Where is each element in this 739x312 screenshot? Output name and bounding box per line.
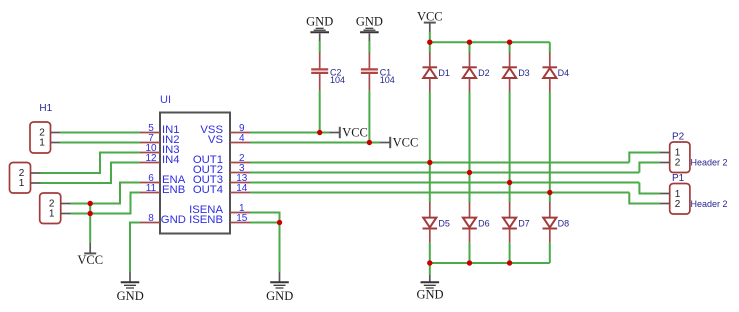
junction OUT2 and D2 column — [467, 170, 472, 175]
pin GND (8) of U1 — [140, 213, 186, 226]
junction top rail at D3 column — [507, 40, 512, 45]
wire ISEN node down to ground — [279, 223, 281, 273]
pin IN4 (12) of U1 — [140, 153, 180, 166]
wire OUT1 row — [250, 162, 629, 164]
connector P1 body — [670, 184, 690, 215]
diode D5 — [423, 202, 438, 243]
wire D1 column from top rail — [429, 42, 431, 53]
junction OUT4 and D4 column — [547, 190, 552, 195]
svg-text:D3: D3 — [518, 68, 530, 78]
wire OUT4 row — [250, 192, 629, 194]
junction J3 pin 2 and VCC drop — [88, 201, 93, 206]
ground symbol below bottom rail — [416, 263, 443, 302]
svg-text:H1: H1 — [39, 103, 52, 114]
wire D4 column top drop — [549, 42, 551, 53]
svg-text:2: 2 — [675, 158, 681, 169]
wire D1 column to OUT1 row and down — [429, 92, 431, 202]
svg-text:GND: GND — [416, 288, 443, 302]
wire GND symbol to C2 top — [319, 41, 321, 53]
svg-text:D4: D4 — [558, 68, 570, 78]
wire ISENA to ground drop — [250, 213, 280, 223]
pin VS (4) of U1 — [208, 133, 250, 146]
junction bottom rail at D7 column — [507, 260, 512, 265]
svg-text:1: 1 — [49, 209, 55, 220]
pin VSS (9) of U1 — [200, 123, 250, 136]
svg-text:104: 104 — [380, 75, 395, 85]
wire VSS net to VCC label — [250, 132, 330, 134]
connector P2 body — [670, 142, 690, 173]
wire VCC drop from J3 pins — [89, 204, 91, 244]
junction OUT3 and D3 column — [507, 180, 512, 185]
wire J3 pin 1 to ENB — [71, 193, 141, 214]
svg-text:4: 4 — [239, 133, 245, 144]
svg-text:IN4: IN4 — [162, 154, 180, 166]
ground symbol above C1 — [356, 15, 383, 41]
connector J3 body (left lower header) — [40, 193, 61, 224]
svg-text:VCC: VCC — [393, 135, 419, 149]
wire top rail VCC — [430, 41, 550, 43]
svg-text:GND: GND — [306, 15, 333, 29]
junction bottom rail at D5 column — [427, 260, 432, 265]
svg-text:8: 8 — [148, 213, 154, 224]
connector J2 body (left middle header) — [10, 163, 31, 194]
wire D3 column to OUT3 row and down — [509, 92, 511, 202]
diode D1 — [423, 53, 438, 92]
connector H1 body — [30, 122, 51, 153]
P1 pin 1 stub — [660, 193, 670, 195]
svg-text:D6: D6 — [478, 219, 490, 229]
svg-text:104: 104 — [330, 75, 345, 85]
J3 pin 2 stub — [61, 203, 71, 205]
wire OUT2 row — [250, 172, 639, 174]
op-amp U1 body — [160, 113, 230, 234]
pin IN2 (7) of U1 — [140, 133, 180, 146]
pin ENB (11) of U1 — [140, 183, 185, 196]
wire VCC symbol to top rail — [429, 32, 431, 42]
pin OUT4 (14) of U1 — [193, 183, 250, 196]
wire J2 pin 1 to IN4 — [41, 163, 141, 184]
pin ENA (6) of U1 — [140, 173, 186, 186]
wire D5 column to bottom rail — [429, 243, 431, 263]
wire C2 bottom to VSS net — [319, 91, 321, 133]
svg-text:UI: UI — [160, 94, 171, 106]
wire D7 column to bottom rail — [509, 243, 511, 263]
J2 pin 2 stub — [31, 172, 41, 174]
capacitor C1 — [361, 53, 378, 91]
pin IN1 (5) of U1 — [140, 123, 180, 136]
svg-text:2: 2 — [675, 199, 681, 210]
svg-text:14: 14 — [236, 183, 248, 194]
svg-text:D5: D5 — [438, 219, 450, 229]
wire ISENB to ground drop — [250, 222, 280, 224]
svg-text:P2: P2 — [672, 132, 685, 143]
wire OUT3 row — [250, 182, 639, 184]
junction bottom rail at D6 column — [467, 260, 472, 265]
pin ISENB (15) of U1 — [189, 213, 250, 226]
junction top rail at D2 column — [467, 40, 472, 45]
wire U1 GND pin to ground — [130, 223, 140, 273]
J3 pin 1 stub — [61, 213, 71, 215]
diode D7 — [502, 202, 517, 243]
wire H1 pin 1 to IN2 — [60, 142, 140, 144]
pin ISENA (1) of U1 — [189, 203, 250, 216]
svg-text:12: 12 — [145, 153, 157, 164]
svg-text:GND: GND — [266, 289, 293, 303]
junction top rail at D1 column — [427, 40, 432, 45]
svg-text:D7: D7 — [518, 219, 530, 229]
svg-text:ISENB: ISENB — [189, 214, 223, 226]
svg-text:1: 1 — [39, 138, 45, 149]
power symbol VCC top — [417, 9, 443, 32]
power label VCC on VSS net — [330, 125, 368, 139]
svg-text:VCC: VCC — [77, 253, 103, 267]
wire C1 bottom to VS net — [368, 91, 370, 143]
wire D4 column to OUT4 row and down — [549, 92, 551, 202]
svg-text:VS: VS — [208, 134, 224, 146]
wire OUT4 jog down to P1 pin 2 — [629, 193, 659, 204]
J2 pin 1 stub — [31, 182, 41, 184]
wire OUT3 jog down to P1 pin 1 — [639, 183, 659, 194]
svg-text:11: 11 — [146, 183, 157, 194]
power label VCC on VS net — [380, 135, 418, 149]
diode D3 — [502, 53, 517, 92]
svg-text:Header 2: Header 2 — [691, 199, 728, 209]
ground symbol below U1 GND pin — [117, 272, 144, 303]
svg-text:GND: GND — [161, 214, 186, 226]
svg-text:VCC: VCC — [417, 9, 443, 23]
wire VS net to VCC label — [250, 142, 380, 144]
power symbol VCC bottom left — [77, 243, 103, 267]
wire J3 pin 2 to ENA — [71, 183, 141, 204]
wire bottom rail GND — [430, 262, 550, 264]
wire D2 column from top rail — [469, 42, 471, 53]
wire OUT1 jog up to P2 pin 1 — [629, 153, 659, 163]
pin IN3 (10) of U1 — [140, 143, 180, 156]
wire D3 column from top rail — [509, 42, 511, 53]
capacitor C2 — [311, 53, 328, 91]
svg-text:1: 1 — [19, 178, 25, 189]
pin OUT3 (13) of U1 — [193, 173, 250, 186]
svg-text:15: 15 — [236, 213, 248, 224]
P2 pin 1 stub — [660, 152, 670, 154]
diode D4 — [543, 53, 558, 92]
P2 pin 2 stub — [660, 162, 670, 164]
wire D8 column to bottom rail — [549, 243, 551, 263]
H1 pin 1 stub — [51, 142, 61, 144]
H1 pin 2 stub — [51, 132, 61, 134]
svg-text:D2: D2 — [478, 68, 490, 78]
wire OUT2 jog up to P2 pin 2 — [639, 163, 659, 173]
diode D2 — [462, 53, 477, 92]
svg-text:Header 2: Header 2 — [691, 158, 728, 168]
wire D6 column to bottom rail — [469, 243, 471, 263]
svg-text:VCC: VCC — [342, 125, 368, 139]
ground symbol above C2 — [306, 15, 333, 41]
svg-text:D1: D1 — [438, 68, 450, 78]
wire GND symbol to C1 top — [368, 41, 370, 53]
diode D8 — [543, 202, 558, 243]
diode D6 — [462, 202, 477, 243]
svg-text:OUT4: OUT4 — [193, 184, 223, 196]
junction OUT1 and D1 column — [427, 160, 432, 165]
svg-text:P1: P1 — [672, 173, 685, 184]
junction VS net and C1 — [367, 140, 372, 145]
svg-text:GND: GND — [356, 15, 383, 29]
svg-text:ENB: ENB — [162, 184, 185, 196]
wire J2 pin 2 to IN3 — [41, 153, 141, 174]
P1 pin 2 stub — [660, 203, 670, 205]
pin OUT1 (2) of U1 — [193, 153, 250, 166]
junction J3 pin 1 and VCC drop — [88, 211, 93, 216]
wire H1 pin 2 to IN1 — [60, 132, 140, 134]
ground symbol below ISEN node — [266, 272, 293, 303]
svg-text:D8: D8 — [558, 219, 570, 229]
svg-text:GND: GND — [117, 289, 144, 303]
wire D2 column to OUT2 row and down — [469, 92, 471, 202]
pin OUT2 (3) of U1 — [193, 163, 250, 176]
junction VSS net and C2 — [317, 130, 322, 135]
junction ISENA/ISENB node — [277, 220, 282, 225]
